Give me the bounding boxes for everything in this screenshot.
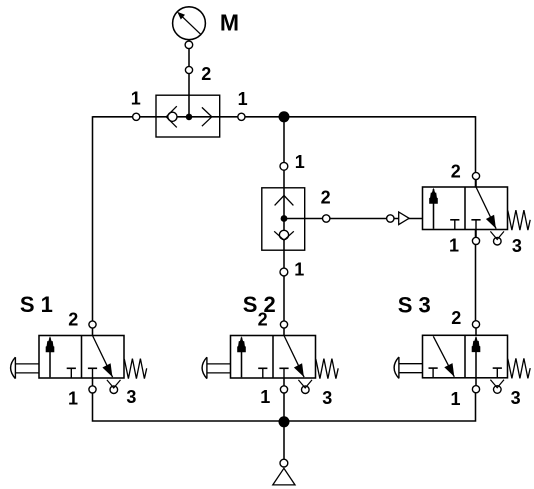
vertical block port 2 side: [323, 215, 330, 222]
svg-text:1: 1: [131, 89, 141, 109]
svg-text:2: 2: [258, 310, 268, 330]
valve V4 pilot actuator: [399, 212, 409, 225]
wire: shuttle block side branch to pilot valve: [284, 218, 423, 220]
svg-text:1: 1: [68, 388, 78, 408]
svg-text:M: M: [220, 9, 239, 35]
supply block: center junction dot: [186, 114, 193, 121]
valve S2 port 1: [283, 378, 285, 386]
valve S2 left-box flow arrow 1-2: [241, 338, 243, 378]
wire: main horizontal supply line y=116.8: [93, 116, 476, 118]
svg-text:3: 3: [512, 236, 522, 256]
valve V4 left-box blocked port 3: [450, 219, 459, 221]
svg-text:2: 2: [451, 162, 461, 182]
valve S1 body: [39, 336, 124, 379]
valve V4 left-box flow arrow 1-2: [433, 189, 435, 229]
vertical block: flow chevron up: [275, 196, 294, 206]
valve S3 left-box blocked port 1: [429, 367, 438, 369]
valve S3 right-box blocked port 3: [493, 367, 502, 369]
valve S2 right-box flow path 2-3: [284, 336, 304, 378]
exhaust port circle bottom: [280, 459, 288, 467]
wire: left bus down to S1 port 2: [92, 116, 94, 328]
svg-text:2: 2: [451, 308, 461, 328]
supply block: check valve ball and seat: [168, 112, 177, 121]
svg-text:1: 1: [294, 259, 304, 279]
valve S1 left-box blocked port 3: [67, 367, 76, 369]
valve S3 left-box flow path 2-3: [433, 336, 454, 377]
valve S1 port 1: [92, 378, 94, 386]
valve S1 port 2: [92, 329, 94, 336]
vertical check-valve block body: [262, 188, 305, 250]
valve S1 right-box blocked port 1: [88, 367, 97, 369]
wire: right bus from main line down to pilot valve port 2: [475, 116, 477, 187]
valve S2 right-box blocked port 1: [279, 367, 288, 369]
valve S3 return spring: [508, 358, 530, 378]
wire: S2 port1 down to bottom bus and exhaust: [283, 389, 285, 460]
valve V4 right-box blocked port 1: [471, 219, 480, 221]
supply block port 1 left: [133, 113, 140, 120]
valve S3 port 1: [475, 378, 477, 386]
valve V4 body: [423, 187, 508, 230]
svg-text:3: 3: [126, 387, 136, 407]
valve V4 return spring: [508, 210, 530, 230]
svg-text:2: 2: [321, 188, 331, 208]
valve S2 port 2: [283, 329, 285, 336]
valve S2 left-box blocked port 3: [258, 367, 267, 369]
valve V4 port 1: [475, 230, 477, 238]
valve V4 port 2: [475, 180, 477, 187]
valve S3 push button actuator: [399, 363, 423, 365]
valve S2 port 3 exhaust: [302, 386, 310, 394]
wire: S1 port1 down, bottom bus, up to S3 port1: [93, 391, 476, 421]
valve S1 left-box flow arrow 1-2: [49, 338, 51, 378]
supply block port 1 right: [238, 113, 245, 120]
vertical block port 1 top: [280, 162, 288, 170]
svg-text:2: 2: [201, 64, 211, 84]
wire: gauge stem down to flow-control block: [188, 40, 190, 117]
valve V4 right-box flow path 2-3: [476, 187, 496, 229]
gauge connection stub circle: [185, 41, 193, 49]
svg-text:S 3: S 3: [398, 293, 431, 318]
valve S3 body: [423, 335, 508, 378]
pilot signal port circle: [387, 215, 394, 222]
svg-text:2: 2: [68, 310, 78, 330]
svg-text:1: 1: [260, 387, 270, 407]
vertical block: junction dot: [281, 215, 288, 222]
valve S2 return spring: [316, 359, 338, 379]
valve S1 right-box flow path 2-3: [93, 336, 113, 378]
junction node: bottom bus / exhaust: [279, 416, 290, 427]
valve V4 port 3 exhaust: [494, 237, 502, 245]
supply block: flow chevron: [202, 107, 212, 126]
valve S1 port 3 exhaust: [110, 386, 118, 394]
valve S1 push button actuator: [15, 363, 39, 365]
supply block port 2 (gauge tap): [185, 66, 192, 73]
svg-text:3: 3: [511, 388, 521, 408]
svg-text:1: 1: [238, 89, 248, 109]
valve S3 right-box flow arrow 1-2: [475, 337, 477, 377]
pressure gauge M: [173, 7, 206, 40]
valve S1 return spring: [124, 359, 146, 379]
exhaust silencer triangle: [273, 468, 295, 485]
vertical block port 1 bottom: [280, 268, 288, 276]
vertical block: check valve ball and seat: [279, 230, 288, 239]
valve S3 port 2: [475, 328, 477, 335]
svg-text:1: 1: [295, 152, 305, 172]
valve S2 push button actuator: [207, 363, 231, 365]
svg-text:3: 3: [322, 388, 332, 408]
valve S2 body: [231, 336, 316, 379]
junction node: main line / center branch: [279, 111, 290, 122]
svg-text:S 1: S 1: [20, 292, 53, 317]
wire: center junction down through shuttle block to S2 port 2: [283, 117, 285, 328]
svg-text:1: 1: [449, 236, 459, 256]
svg-text:1: 1: [451, 389, 461, 409]
wire: pilot valve port1 down to S3 port 2: [475, 230, 477, 329]
supply block: check-valve unit body: [156, 95, 220, 137]
valve S3 port 3 exhaust: [494, 386, 502, 394]
